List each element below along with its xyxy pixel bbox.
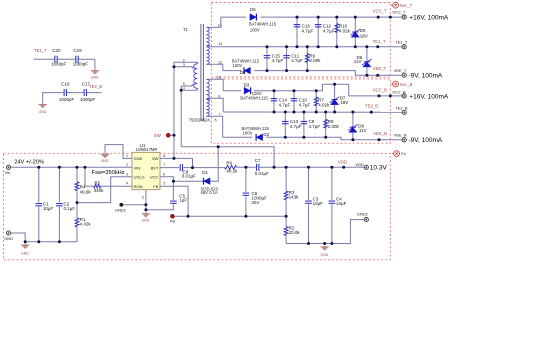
svg-text:R5: R5 (94, 180, 100, 185)
secondary winding S2 pins 12-10 (206, 47, 209, 64)
junction C1 bottom (37, 240, 40, 243)
port VEE_B (394, 133, 443, 145)
wire C6 leg (245, 167, 247, 216)
wire TE2_B filter row (43, 93, 102, 104)
junction border VCC_B (389, 94, 392, 97)
svg-text:Sec_B: Sec_B (400, 82, 413, 87)
svg-text:GND: GND (91, 76, 99, 80)
svg-text:2.00k: 2.00k (328, 124, 340, 129)
diode D3 (240, 82, 268, 100)
wire R6 C7 VDD rail (193, 166, 365, 168)
svg-text:VEE_B: VEE_B (373, 131, 387, 136)
capacitor C2 (56, 201, 75, 211)
wire TE1_T filter row (34, 59, 95, 69)
net label VCC_T (373, 9, 387, 19)
svg-text:4.7µF: 4.7µF (279, 102, 291, 107)
resistor R1 (75, 217, 91, 227)
wire SW net (160, 135, 193, 158)
junction C3 top (307, 166, 310, 169)
junction C9 bottom (302, 136, 305, 139)
junction R4 R1 (76, 201, 79, 204)
wire C12 leg (317, 17, 319, 47)
svg-text:4.7µF: 4.7µF (309, 124, 321, 129)
junction C12 top (317, 16, 320, 19)
wire xfmr feed to VDD (181, 147, 274, 168)
junction R7 top (315, 89, 318, 92)
svg-text:4.7µF: 4.7µF (302, 28, 314, 33)
svg-text:D1: D1 (202, 170, 208, 175)
svg-text:SW: SW (154, 133, 162, 138)
ground after C19 (91, 69, 99, 79)
svg-text:R6: R6 (226, 161, 232, 166)
junction D6 bottom (365, 74, 368, 77)
net label VEE_T (373, 66, 387, 77)
wire FB pin leg (160, 186, 188, 216)
junction C10 bottom (293, 111, 296, 114)
resistor R3 (284, 190, 299, 200)
svg-text:0.01µF: 0.01µF (182, 173, 196, 178)
svg-text:4.7µF: 4.7µF (290, 124, 302, 129)
ground pad U1 (142, 212, 150, 222)
capacitor C17 (80, 81, 96, 102)
wire C13 leg (284, 112, 286, 137)
wire R3 leg (285, 167, 287, 216)
port GND1 (115, 203, 127, 212)
svg-text:GND: GND (4, 236, 13, 241)
capacitor C16 (294, 24, 314, 34)
svg-text:4.02k: 4.02k (339, 28, 351, 33)
capacitor C14 (271, 98, 291, 108)
svg-text:C7: C7 (255, 158, 261, 163)
zener D9 (351, 28, 368, 39)
junction D1 riser (217, 145, 220, 148)
svg-text:GND: GND (321, 253, 329, 257)
resistor R9 (305, 54, 321, 64)
junction C4 bottom (330, 242, 333, 245)
svg-text:VDD: VDD (338, 159, 347, 164)
secondary winding S1 pins 14-13 (206, 27, 209, 45)
capacitor C1 (36, 201, 54, 211)
diode D1 (201, 170, 219, 195)
secondary winding S4 pins 6-5 (206, 100, 209, 117)
zener D8 (348, 124, 366, 133)
junction R3 top (285, 166, 288, 169)
resistor R5 (94, 180, 105, 193)
junction D9 bottom (354, 45, 357, 48)
wire pins 2,3 tie to SW (174, 62, 195, 158)
wire TE2_B rail (223, 111, 402, 113)
junction C3 bottom (307, 242, 310, 245)
capacitor C13 (282, 119, 302, 129)
port VCC_T (392, 10, 449, 22)
svg-text:1000pF: 1000pF (59, 97, 75, 102)
svg-text:GND2: GND2 (357, 211, 369, 216)
capacitor C15 (264, 54, 284, 64)
svg-text:GND1: GND1 (115, 207, 127, 212)
wire R4 R1 leg (76, 167, 78, 241)
svg-text:VEE_B: VEE_B (394, 133, 407, 138)
svg-text:4: 4 (126, 182, 128, 186)
svg-text:C20: C20 (52, 48, 61, 53)
resistor R6 (225, 161, 239, 174)
junction VCC corner (172, 180, 175, 183)
wire C2 leg (58, 167, 60, 241)
junction pins 2,3 (173, 65, 176, 68)
junction border VCC_T (389, 16, 392, 19)
diode D5 (249, 7, 277, 33)
junction D8 bottom (351, 138, 354, 141)
capacitor C3 (305, 197, 323, 206)
junction FB riser (187, 215, 190, 218)
wire pin10 to D3 row (210, 79, 223, 90)
svg-text:VCC: VCC (150, 175, 159, 180)
svg-text:9: 9 (142, 195, 144, 199)
wire GND port leg (11, 233, 26, 242)
svg-text:750314624: 750314624 (189, 118, 211, 123)
junction R4 top (76, 166, 79, 169)
junction C6 top (244, 166, 247, 169)
junction R10 bottom (335, 45, 338, 48)
flag Sec_T (391, 2, 412, 8)
net label VEE_B (373, 131, 387, 141)
svg-text:VEE_T: VEE_T (373, 66, 387, 71)
ground pin1 (101, 153, 110, 163)
wire BST C8 (160, 158, 193, 167)
svg-text:VCC_T: VCC_T (392, 10, 406, 15)
junction C16 bottom (296, 45, 299, 48)
wire R5 RON path (85, 167, 132, 186)
wire C4 leg (331, 167, 333, 243)
junction C8 right (191, 166, 194, 169)
junction C15 bottom (266, 69, 269, 72)
svg-text:18V: 18V (340, 100, 348, 105)
junction C16 top (296, 16, 299, 19)
svg-text:D4: D4 (240, 70, 246, 75)
svg-text:0.1µF: 0.1µF (64, 206, 76, 211)
svg-text:0.01µF: 0.01µF (255, 171, 269, 176)
wire R8 leg (325, 112, 327, 137)
wire D9 leg (354, 17, 356, 47)
svg-text:1000pF: 1000pF (73, 62, 89, 67)
svg-text:D9: D9 (360, 28, 366, 33)
svg-text:45V 0.1A: 45V 0.1A (201, 190, 218, 195)
testpoint SW (154, 133, 170, 138)
svg-text:4.7µF: 4.7µF (299, 102, 311, 107)
svg-text:4.7µF: 4.7µF (291, 58, 303, 63)
svg-text:18V: 18V (360, 33, 368, 38)
svg-text:VIN: VIN (134, 165, 141, 170)
svg-text:FB: FB (170, 219, 175, 224)
primary winding (194, 62, 198, 90)
svg-text:VCC_B: VCC_B (373, 87, 387, 92)
svg-text:FB: FB (153, 184, 158, 189)
wire R7 leg (315, 91, 317, 112)
svg-text:-9V, 100mA: -9V, 100mA (409, 73, 443, 80)
svg-text:10µF: 10µF (313, 201, 324, 206)
zener D6 (354, 55, 372, 67)
wire VCC_B rail (223, 84, 402, 96)
svg-text:40.2k: 40.2k (226, 168, 238, 173)
svg-text:2: 2 (126, 163, 128, 167)
junction C6 bottom (244, 215, 247, 218)
port Vin (5, 165, 11, 175)
wire pin7 to D2 row (210, 116, 223, 137)
capacitor C20 (51, 48, 67, 67)
junction C1 top (37, 166, 40, 169)
svg-text:340k: 340k (94, 188, 105, 193)
ground before C18 (39, 103, 47, 114)
junction R3 bottom (285, 215, 288, 218)
svg-text:TE1_T: TE1_T (373, 39, 386, 44)
junction D7 bottom (333, 111, 336, 114)
junction R10 top (335, 16, 338, 19)
junction C14 top (273, 89, 276, 92)
flag Sec_B (391, 81, 412, 87)
svg-text:13: 13 (218, 42, 222, 46)
wire VEE_T row (223, 71, 402, 76)
svg-text:1µF: 1µF (179, 198, 187, 203)
svg-text:GND: GND (39, 110, 47, 114)
junction C11 bottom (285, 69, 288, 72)
svg-text:TE2_B: TE2_B (395, 106, 408, 111)
transformer T1 750314624 (183, 24, 210, 123)
wire C3 leg (308, 167, 310, 243)
ground output (321, 246, 329, 258)
resistor R8 (324, 119, 340, 129)
svg-text:TE1_T: TE1_T (395, 39, 408, 44)
wire Vin rail (11, 166, 132, 168)
svg-text:T1: T1 (183, 27, 189, 32)
svg-text:VCC_T: VCC_T (373, 9, 387, 14)
capacitor C5 (170, 194, 187, 204)
svg-text:49.9k: 49.9k (80, 189, 92, 194)
svg-text:Pri: Pri (401, 152, 406, 157)
svg-text:4.42k: 4.42k (80, 222, 92, 227)
svg-text:LM5017MR: LM5017MR (136, 147, 158, 152)
net label VCC_B (373, 87, 387, 97)
junction D6 top (365, 45, 368, 48)
op-amp U1 LM5017MR (132, 143, 160, 190)
capacitor C4 (329, 197, 347, 206)
svg-text:10µF: 10µF (43, 206, 54, 211)
junction C15 top (266, 45, 269, 48)
net label TE2_B (365, 103, 378, 113)
svg-text:GND: GND (101, 159, 109, 163)
junction C11 top (285, 45, 288, 48)
wire C11 leg (286, 47, 288, 71)
svg-text:TE2_B: TE2_B (89, 84, 102, 89)
wire bottom gnd rail (25, 241, 77, 243)
svg-text:+16V, 100mA: +16V, 100mA (409, 15, 449, 22)
junction C7 VDD (273, 166, 276, 169)
svg-text:C19: C19 (73, 48, 82, 53)
wire C16 leg (296, 17, 298, 47)
svg-text:100V: 100V (250, 28, 260, 33)
resistor R10 (335, 24, 351, 34)
wire R2 leg (285, 216, 287, 243)
wire D8 leg (352, 112, 354, 140)
wire R9 leg (306, 47, 308, 71)
junction C13 bottom (284, 136, 287, 139)
junction C9 top (302, 111, 305, 114)
svg-text:C18: C18 (61, 81, 70, 86)
svg-text:2.00k: 2.00k (309, 58, 321, 63)
svg-text:6: 6 (163, 172, 165, 176)
diode D4 (232, 59, 260, 75)
svg-text:11V: 11V (354, 59, 362, 64)
core (200, 24, 202, 121)
svg-text:3: 3 (126, 172, 128, 176)
svg-text:GND: GND (21, 251, 29, 255)
svg-text:7: 7 (163, 163, 165, 167)
svg-text:-5: -5 (213, 119, 216, 123)
junction C13 top (284, 111, 287, 114)
svg-text:1000pF: 1000pF (80, 97, 96, 102)
svg-text:SW: SW (152, 156, 159, 161)
junction C14 bottom (273, 111, 276, 114)
svg-text:4.7µF: 4.7µF (272, 58, 284, 63)
wire pins 5,4 tie (181, 86, 191, 90)
wire GND pin1 loop (105, 145, 132, 159)
svg-text:D2: D2 (263, 132, 269, 137)
svg-text:143k: 143k (289, 195, 300, 200)
junction GND1 (144, 203, 147, 206)
svg-text:UVLO: UVLO (134, 175, 145, 180)
svg-text:D5: D5 (250, 7, 256, 12)
junction pins 5,4 (180, 89, 183, 92)
wire FB rail (174, 215, 286, 217)
port VCC_B (392, 89, 449, 100)
wire UVLO path (77, 177, 132, 203)
resistor R7 (314, 97, 330, 107)
junction D7 top (333, 83, 336, 86)
capacitor C12 (315, 24, 335, 34)
svg-text:1: 1 (126, 154, 128, 158)
svg-text:1000pF: 1000pF (51, 62, 67, 67)
svg-text:8: 8 (163, 154, 165, 158)
wire D6 leg (366, 47, 368, 75)
junction R8 bottom (324, 136, 327, 139)
wire VCC pin to D1 (160, 147, 218, 181)
junction gnd2 (323, 242, 326, 245)
junction C12 bottom (317, 45, 320, 48)
junction gnd corner (24, 240, 27, 243)
svg-text:GND: GND (142, 219, 150, 223)
secondary winding S3 pins 8-7 (206, 79, 209, 98)
capacitor C9 (301, 119, 321, 129)
junction D9 top (354, 16, 357, 19)
capacitor C19 (73, 48, 89, 67)
wire pin12 to D4 row (210, 64, 223, 70)
svg-text:Sec_T: Sec_T (400, 3, 413, 8)
svg-text:VDD: VDD (355, 162, 364, 167)
wire R10 leg (336, 17, 338, 47)
junction C2 top (58, 166, 61, 169)
wire C9 leg (303, 112, 305, 137)
junction R5 top (84, 166, 87, 169)
svg-text:20.0k: 20.0k (289, 230, 301, 235)
capacitor C7 (255, 158, 269, 176)
blanket Sec_B (211, 79, 390, 143)
svg-text:11V: 11V (359, 128, 367, 133)
wire C5 leg (146, 181, 174, 210)
capacitor C6 (243, 191, 268, 205)
svg-text:10.3V: 10.3V (370, 165, 388, 172)
net label TE1_T (373, 39, 386, 48)
wire VCC_T rail (221, 16, 402, 18)
svg-text:+16V, 100mA: +16V, 100mA (409, 93, 449, 100)
port TE2_B (395, 106, 408, 115)
capacitor C11 (283, 54, 303, 64)
svg-text:100V: 100V (243, 131, 253, 136)
junction C4 top (330, 166, 333, 169)
wire GND1 leg (123, 204, 146, 206)
svg-text:100V: 100V (233, 63, 243, 68)
svg-text:D3: D3 (244, 82, 250, 87)
wire C15 leg (266, 47, 268, 71)
capacitor C8 (180, 164, 196, 178)
svg-text:TE1_T: TE1_T (34, 48, 47, 53)
port VEE_T (394, 68, 443, 80)
wire C1 leg (38, 167, 40, 241)
junction R9 bottom (306, 69, 309, 72)
testpoint FB (170, 214, 175, 223)
junction C2 bottom (58, 240, 61, 243)
wire bottom rail 2 (286, 220, 364, 244)
junction R7 bottom (315, 111, 318, 114)
junction SW tp (173, 134, 176, 137)
capacitor C10 (291, 98, 311, 108)
svg-text:BST: BST (151, 165, 159, 170)
ground at input (21, 244, 29, 256)
port GND (4, 231, 13, 241)
wire pin14 to D5 rail (210, 17, 221, 27)
wire C10 leg (293, 91, 295, 112)
wire VEE_B row (223, 137, 402, 140)
junction SW node (173, 157, 176, 160)
diode D2 (242, 126, 270, 141)
junction C5 return (144, 208, 147, 211)
resistor R2 (284, 226, 300, 236)
junction R8 top (324, 111, 327, 114)
net label VDD (338, 159, 347, 169)
svg-text:VEE_T: VEE_T (394, 68, 407, 73)
port VDD (355, 162, 387, 172)
svg-text:5: 5 (163, 182, 165, 186)
blanket Pri (4, 153, 391, 259)
blanket Sec_T (211, 3, 390, 78)
wire C14 leg (273, 91, 275, 112)
svg-text:Vin: Vin (5, 170, 11, 175)
wire TE1_T rail (210, 46, 402, 48)
svg-text:4.02k: 4.02k (318, 102, 330, 107)
svg-text:TE2_B: TE2_B (365, 103, 378, 108)
port GND2 (357, 211, 369, 221)
svg-text:BAT46WH,115: BAT46WH,115 (249, 22, 277, 27)
zener D7 (330, 96, 349, 106)
port TE1_T (395, 39, 408, 49)
resistor R4 (75, 182, 91, 195)
svg-text:25V: 25V (252, 200, 260, 205)
svg-text:BAT46WH,115: BAT46WH,115 (240, 95, 268, 100)
flag Pri (392, 151, 406, 157)
junction R9 top (306, 45, 309, 48)
wire D7 leg (334, 84, 336, 112)
capacitor C18 (59, 81, 75, 102)
svg-text:24V +/-20%: 24V +/-20% (14, 160, 44, 166)
svg-text:GND: GND (134, 156, 143, 161)
wire pad leg (145, 190, 147, 213)
